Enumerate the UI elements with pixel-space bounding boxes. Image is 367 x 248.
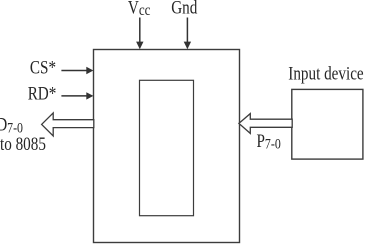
port bus hollow arrow P7-0 <box>239 114 292 134</box>
svg-text:RD*: RD* <box>28 83 57 104</box>
svg-text:CS*: CS* <box>30 57 56 78</box>
port latch inner rectangle <box>140 80 194 215</box>
svg-text:P7-0: P7-0 <box>257 130 282 151</box>
wire Vcc supply arrow <box>139 18 141 43</box>
input device block <box>292 89 363 159</box>
svg-text:Vcc: Vcc <box>128 0 151 19</box>
wire CS* arrow <box>61 70 87 72</box>
svg-text:to 8085: to 8085 <box>0 133 46 154</box>
wire RD* arrow <box>61 95 87 97</box>
input port block U1 <box>94 50 240 243</box>
svg-text:Gnd: Gnd <box>171 0 198 18</box>
wire Gnd arrow <box>186 18 188 43</box>
svg-text:Input device: Input device <box>288 63 363 84</box>
data bus hollow arrow to 8085 <box>42 113 94 136</box>
